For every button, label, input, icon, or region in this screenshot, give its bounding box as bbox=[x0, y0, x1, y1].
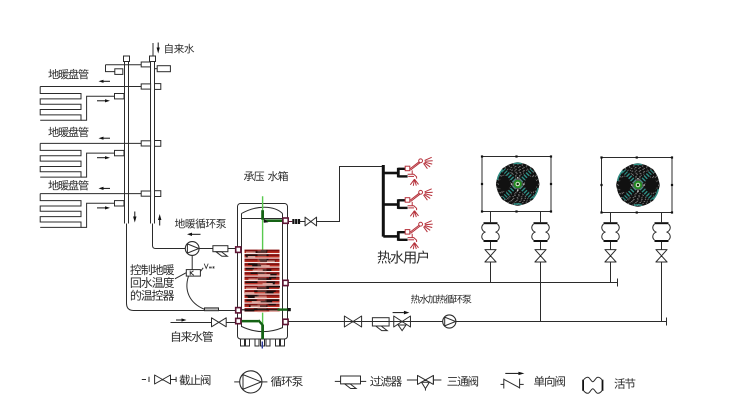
port stub right of right riser bbox=[155, 191, 161, 197]
wire HP2 to valve bbox=[661, 242, 663, 250]
wire zone supply line bbox=[40, 193, 141, 195]
flex joint HP1 bbox=[534, 222, 548, 224]
pipe HP2 drop bbox=[661, 213, 663, 223]
node lower main end cap bbox=[666, 318, 668, 326]
wire HP1 to valve bbox=[490, 242, 492, 250]
pipe user bracket bbox=[397, 199, 400, 209]
node tank drain blue tick bbox=[261, 342, 263, 349]
wire caption callout bbox=[175, 273, 186, 279]
wire tap-water inlet drop bbox=[152, 43, 154, 56]
arrow return flow bbox=[97, 157, 105, 159]
port zone return on left riser bbox=[115, 201, 125, 206]
node right riser top cap bbox=[150, 56, 156, 62]
filter F1 bbox=[213, 246, 228, 252]
port zone return on left riser bbox=[115, 94, 125, 99]
flex joint HP2 bbox=[655, 222, 669, 224]
heat pump HP2 fan bbox=[616, 163, 660, 207]
port tank right lower-main bbox=[283, 319, 288, 324]
pipe left riser bbox=[124, 62, 126, 224]
pipe right riser bbox=[150, 62, 152, 224]
pump P1 floor heating circulation bbox=[185, 242, 199, 256]
tank inner dome bbox=[242, 207, 283, 213]
legend pump symbol bbox=[234, 381, 239, 383]
label floor pump 地暖循环泵 bbox=[175, 219, 226, 229]
label tap water 自来水 bbox=[165, 44, 194, 54]
pipe tank top internal dark green bbox=[261, 210, 264, 220]
pipe coil bottom outlet dark green bbox=[241, 309, 278, 311]
pipe left riser to tank coil return bbox=[127, 224, 288, 311]
label Vmax bbox=[204, 264, 214, 269]
legend check valve symbol bbox=[505, 372, 518, 374]
port zone supply on right riser bbox=[141, 191, 150, 196]
shower head user bbox=[405, 157, 433, 186]
heat pump HP2 casing bbox=[602, 158, 673, 213]
union U1 pipe joint bbox=[292, 219, 294, 224]
port zone return on left riser bbox=[115, 150, 125, 155]
pipe HP2 drop bbox=[610, 213, 612, 223]
tank shell bbox=[238, 204, 288, 340]
label tap water pipe 自来水管 bbox=[172, 331, 213, 342]
wire lower main bbox=[288, 321, 666, 323]
arrow down at left riser bottom bbox=[134, 212, 136, 217]
wire pump to filter bbox=[199, 248, 213, 250]
pipe floor coil serpentine bbox=[40, 143, 81, 177]
legend label 单向阀 bbox=[534, 376, 565, 387]
filter F2 lower main bbox=[372, 318, 389, 326]
wire zone supply line bbox=[40, 86, 141, 88]
pipe floor coil serpentine bbox=[40, 194, 81, 228]
pipe tank bottom internal dark green bbox=[241, 320, 258, 323]
label thermostat caption 控制地暖回水温度的温控器 bbox=[130, 264, 174, 275]
port top on right riser bbox=[141, 62, 150, 67]
arrow supply flow bbox=[104, 80, 111, 82]
pipe user branch bbox=[383, 172, 398, 175]
pipe coil return riser bbox=[81, 96, 115, 120]
pipe right riser to circulation pump bbox=[153, 224, 186, 249]
thermostat K box bbox=[186, 270, 200, 277]
legend flex joint symbol bbox=[582, 380, 584, 391]
legend label 循环泵 bbox=[271, 376, 303, 387]
wire top cross-connector bbox=[106, 64, 142, 66]
port zone supply on right riser bbox=[141, 141, 150, 146]
valve V4 three-way valve lower main bbox=[394, 316, 411, 327]
port tank left tap-in bbox=[236, 318, 241, 323]
port zone supply on right riser bbox=[141, 84, 150, 89]
node upper main end cap bbox=[617, 279, 619, 287]
arrow tap water flow bbox=[176, 319, 182, 321]
legend label 活节 bbox=[614, 378, 635, 389]
wire filter to tank bbox=[228, 248, 236, 250]
wire tank level gauge green bbox=[262, 196, 264, 339]
label floor heating coil 地暖盘管 bbox=[48, 69, 88, 79]
arrow up at right riser bottom bbox=[159, 220, 161, 226]
label hot water heating pump 热水加热循环泵 bbox=[411, 294, 472, 303]
arrow tap-water flow down bbox=[157, 43, 159, 48]
arrow return flow bbox=[97, 207, 105, 209]
pipe user bracket bbox=[397, 231, 400, 241]
wire pump to thermostat bbox=[191, 255, 193, 269]
wire union to valve bbox=[300, 221, 306, 223]
legend label 过滤器 bbox=[370, 376, 402, 387]
valve V1 stop valve on tap line bbox=[212, 318, 227, 327]
node left riser top cap bbox=[124, 56, 130, 62]
wire HP2 left pipe to upper main bbox=[610, 262, 612, 283]
shower head user bbox=[405, 221, 433, 250]
heat pump HP1 fan bbox=[496, 162, 540, 206]
pipe user branch bbox=[383, 235, 398, 238]
legend label 三通阀 bbox=[447, 376, 478, 387]
port tank left coil-in bbox=[236, 247, 241, 253]
valve HP2 shutoff bbox=[656, 250, 667, 262]
arrow supply flow bbox=[104, 137, 111, 139]
pipe hot water manifold bbox=[382, 165, 385, 237]
wire HP2 to valve bbox=[610, 242, 612, 250]
valve HP2 shutoff bbox=[605, 250, 616, 262]
wire zone supply line bbox=[40, 142, 141, 144]
port cap right of right riser top bbox=[155, 68, 158, 70]
arrow flow on lower main bbox=[393, 312, 404, 314]
tank feet bbox=[241, 339, 245, 346]
valve V3 stop valve lower main bbox=[344, 316, 361, 327]
valve HP1 shutoff bbox=[485, 250, 496, 262]
port stub right of right riser bbox=[155, 84, 161, 90]
label floor heating coil 地暖盘管 bbox=[48, 180, 88, 190]
tank bottom dish bbox=[242, 327, 283, 332]
arrow flow to pump bbox=[192, 233, 201, 235]
pipe HP1 drop bbox=[540, 212, 542, 223]
pipe user bracket bbox=[397, 168, 400, 178]
heat pump HP1 grips bbox=[481, 155, 483, 157]
pump P2 hot water heating circulation bbox=[443, 315, 456, 328]
valve V2 stop valve hot water bbox=[305, 217, 317, 226]
legend filter symbol bbox=[335, 380, 341, 382]
label hot water users 热水用户 bbox=[378, 251, 428, 264]
wire hot water riser bbox=[317, 167, 383, 222]
wire HP1 right pipe to lower main bbox=[540, 262, 542, 322]
port tank top-right bbox=[283, 218, 288, 223]
flex joint HP1 bbox=[484, 222, 498, 224]
shower head user bbox=[405, 189, 433, 218]
pipe coil return riser bbox=[81, 203, 115, 227]
port tank right upper-main bbox=[283, 280, 288, 285]
legend label 截止阀 bbox=[179, 375, 210, 386]
wire tap water line bbox=[171, 322, 212, 324]
port stub right of right riser bbox=[155, 141, 161, 147]
wire upper main bbox=[288, 282, 617, 284]
label floor heating coil 地暖盘管 bbox=[48, 127, 88, 137]
flex joint HP2 bbox=[604, 222, 618, 224]
wire thermostat sensor lead bbox=[187, 276, 205, 309]
arrow return flow bbox=[97, 100, 105, 102]
sensor probe on return pipe bbox=[205, 308, 219, 311]
label tank 承压水箱 bbox=[244, 171, 288, 181]
legend three-way valve symbol bbox=[407, 379, 418, 381]
arrow supply flow bbox=[104, 187, 111, 189]
heat pump HP1 casing bbox=[482, 157, 551, 212]
heat pump HP2 grips bbox=[600, 156, 602, 158]
pipe user branch bbox=[383, 203, 398, 206]
coil heat exchanger in tank bbox=[245, 250, 280, 313]
valve HP1 shutoff bbox=[535, 250, 546, 262]
tank flange line bbox=[242, 218, 283, 220]
pipe coil return riser bbox=[81, 153, 115, 177]
wire HP1 left pipe to upper main bbox=[490, 262, 492, 283]
wire HP2 right pipe to lower main bbox=[661, 262, 663, 322]
tank inner walls bbox=[241, 214, 243, 328]
pipe HP1 drop bbox=[490, 212, 492, 223]
legend stop valve symbol bbox=[142, 379, 146, 381]
port top-left on left riser bbox=[115, 69, 123, 75]
wire HP1 to valve bbox=[540, 242, 542, 250]
port tank left coil-out bbox=[236, 308, 241, 313]
pipe floor coil serpentine bbox=[40, 87, 81, 121]
wire tank to union bbox=[288, 221, 292, 223]
